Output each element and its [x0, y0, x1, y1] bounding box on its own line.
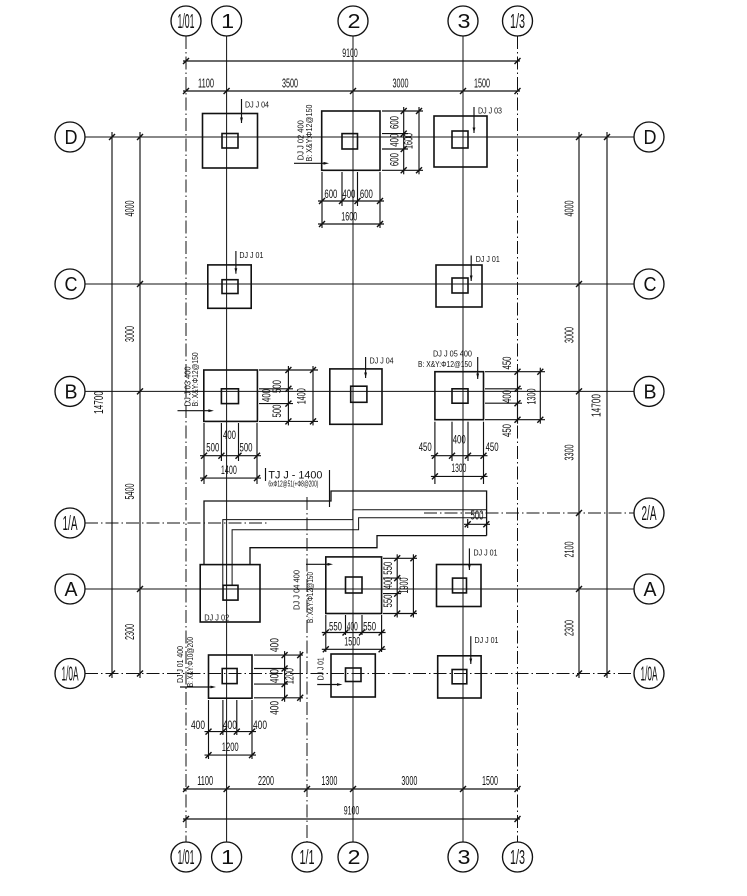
svg-text:1400: 1400	[221, 465, 237, 477]
svg-text:DJ J 04: DJ J 04	[370, 356, 394, 366]
svg-text:1/1: 1/1	[300, 847, 315, 869]
svg-text:400: 400	[502, 390, 514, 403]
svg-text:400: 400	[191, 720, 205, 732]
svg-text:2200: 2200	[258, 773, 274, 788]
svg-text:B: B	[65, 382, 78, 404]
svg-text:1400: 1400	[297, 388, 309, 404]
svg-text:450: 450	[502, 424, 514, 437]
svg-text:9100: 9100	[342, 48, 358, 60]
svg-text:1100: 1100	[197, 773, 213, 788]
svg-text:B: X&Y:Φ12@150: B: X&Y:Φ12@150	[418, 359, 472, 369]
svg-text:400: 400	[347, 621, 358, 633]
svg-text:2/A: 2/A	[642, 503, 657, 525]
svg-text:B: X&Y:Φ12@150: B: X&Y:Φ12@150	[304, 104, 314, 161]
svg-text:1500: 1500	[474, 75, 490, 90]
svg-text:B: X&Y:Φ12@150: B: X&Y:Φ12@150	[190, 352, 200, 406]
svg-text:1300: 1300	[321, 773, 337, 788]
svg-text:1600: 1600	[341, 212, 357, 224]
svg-text:A: A	[644, 579, 658, 601]
svg-text:C: C	[644, 274, 657, 296]
svg-text:400: 400	[269, 669, 281, 683]
svg-text:2100: 2100	[561, 542, 576, 558]
svg-text:1/0A: 1/0A	[641, 664, 658, 686]
svg-text:DJ J 01: DJ J 01	[474, 548, 498, 558]
svg-text:6xΦ12@51(+Φ8@200): 6xΦ12@51(+Φ8@200)	[268, 479, 318, 489]
svg-text:500: 500	[206, 442, 219, 454]
svg-text:1500: 1500	[482, 773, 498, 788]
svg-text:1300: 1300	[451, 463, 466, 475]
svg-text:4000: 4000	[122, 201, 137, 217]
svg-text:3500: 3500	[282, 75, 298, 90]
svg-text:3300: 3300	[561, 445, 576, 461]
svg-text:C: C	[65, 274, 78, 296]
svg-text:D: D	[644, 127, 657, 149]
svg-text:600: 600	[389, 116, 401, 129]
svg-text:1300: 1300	[526, 389, 538, 405]
svg-text:DJ J 05 400: DJ J 05 400	[433, 349, 472, 359]
svg-text:DJ J 01: DJ J 01	[239, 250, 263, 260]
svg-text:2: 2	[348, 11, 361, 33]
svg-text:2300: 2300	[122, 624, 137, 640]
svg-text:550: 550	[383, 595, 395, 608]
svg-text:3000: 3000	[122, 326, 137, 342]
svg-text:600: 600	[389, 153, 401, 166]
svg-text:14700: 14700	[588, 394, 603, 417]
svg-text:1/3: 1/3	[510, 11, 525, 33]
svg-text:1900: 1900	[399, 578, 411, 594]
svg-text:400: 400	[383, 577, 395, 589]
svg-text:400: 400	[389, 134, 401, 147]
svg-text:B: B	[644, 382, 657, 404]
svg-text:550: 550	[329, 621, 342, 633]
svg-text:1/0A: 1/0A	[62, 664, 79, 686]
svg-text:500: 500	[272, 380, 284, 393]
svg-text:3000: 3000	[393, 75, 409, 90]
svg-text:600: 600	[324, 189, 337, 201]
svg-text:B: X&Y:Φ10@200: B: X&Y:Φ10@200	[185, 637, 195, 687]
svg-text:1/3: 1/3	[510, 847, 525, 869]
svg-text:600: 600	[360, 189, 373, 201]
svg-text:400: 400	[342, 189, 355, 201]
svg-text:500: 500	[272, 405, 284, 418]
svg-text:14700: 14700	[91, 391, 106, 414]
svg-text:1500: 1500	[344, 636, 360, 648]
svg-text:DJ J 01: DJ J 01	[476, 254, 500, 264]
svg-text:1/01: 1/01	[178, 11, 195, 33]
svg-text:400: 400	[253, 720, 267, 732]
svg-text:3: 3	[458, 11, 471, 33]
svg-text:4000: 4000	[561, 201, 576, 217]
svg-text:A: A	[65, 579, 79, 601]
svg-text:500: 500	[240, 442, 253, 454]
svg-text:D: D	[65, 127, 78, 149]
svg-text:B: X&Y:Φ12@150: B: X&Y:Φ12@150	[305, 572, 315, 623]
svg-text:1: 1	[221, 847, 234, 869]
svg-text:9100: 9100	[344, 806, 360, 818]
svg-text:450: 450	[486, 442, 499, 454]
svg-text:1100: 1100	[198, 75, 214, 90]
svg-text:400: 400	[223, 720, 237, 732]
svg-text:450: 450	[502, 357, 514, 370]
svg-text:3000: 3000	[401, 773, 417, 788]
svg-text:400: 400	[269, 638, 281, 652]
svg-text:400: 400	[261, 389, 273, 402]
svg-text:400: 400	[269, 701, 281, 715]
svg-text:DJ J 02: DJ J 02	[204, 613, 229, 623]
svg-text:550: 550	[363, 621, 376, 633]
svg-text:500: 500	[471, 508, 484, 523]
svg-text:3: 3	[458, 847, 471, 869]
svg-text:400: 400	[223, 430, 236, 442]
svg-text:5400: 5400	[122, 484, 137, 500]
svg-text:DJ J 04 400: DJ J 04 400	[292, 570, 302, 610]
svg-text:1: 1	[221, 11, 234, 33]
svg-text:1200: 1200	[284, 668, 296, 684]
svg-text:DJ J 01: DJ J 01	[316, 657, 326, 680]
svg-text:DJ J 01 400: DJ J 01 400	[175, 646, 185, 683]
svg-text:2: 2	[348, 847, 361, 869]
svg-text:2300: 2300	[561, 620, 576, 636]
svg-text:1200: 1200	[222, 742, 239, 754]
svg-text:1/01: 1/01	[178, 847, 195, 869]
svg-text:3000: 3000	[561, 327, 576, 343]
svg-text:550: 550	[383, 562, 395, 575]
svg-text:DJ J 04: DJ J 04	[245, 100, 269, 110]
svg-text:DJ J 01: DJ J 01	[475, 635, 499, 645]
svg-text:400: 400	[453, 434, 466, 446]
svg-text:450: 450	[419, 442, 432, 454]
svg-text:1/A: 1/A	[63, 513, 78, 535]
svg-text:DJ J 03: DJ J 03	[478, 106, 502, 116]
svg-text:1600: 1600	[403, 133, 415, 149]
